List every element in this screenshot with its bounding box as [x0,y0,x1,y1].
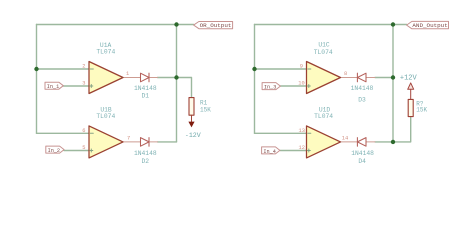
wire AND bus to R? bottom [393,117,411,142]
global label OR_Output [194,22,233,30]
diode D1 [141,73,150,82]
junction feedback to pin 9 [252,67,256,71]
wire D2 cathode to bus [158,141,177,143]
wire left vertical feedback right [254,25,256,134]
svg-text:D3: D3 [358,97,366,104]
diode D4 [357,138,366,147]
U1A minus mark [90,68,93,70]
svg-text:AND_Output: AND_Output [412,22,447,29]
junction OR output top [174,22,178,26]
wire D1 cathode to bus [158,77,177,79]
global label In_1 [45,82,63,90]
op-amp U1C pins (red stubs) [341,77,376,79]
resistor R? [408,99,413,116]
op-amp U1A [89,62,123,94]
op-amp U1D pins (red stubs) [341,141,376,143]
wire In_1 to pin 3 [63,85,89,87]
U1B minus mark [90,132,93,134]
svg-text:7: 7 [127,136,130,142]
svg-text:In_1: In_1 [47,84,59,90]
power -12V arrow [188,122,194,128]
op-amp U1D [307,126,341,158]
diode D2 [141,138,150,147]
svg-text:13: 13 [299,128,305,134]
svg-text:1: 1 [126,71,129,77]
svg-text:2: 2 [82,64,85,70]
R? top pin [410,89,412,99]
svg-text:OR_Output: OR_Output [200,22,232,29]
wire In_4 to pin 12 [280,150,306,152]
op-amp U1C [307,62,341,94]
diode D3 [357,73,366,82]
power +12V arrow [408,83,414,89]
op-amp U1B [89,126,123,158]
wire top feedback bus right [255,24,407,26]
svg-text:1N4148: 1N4148 [351,85,374,92]
wire D3 anode to AND bus [375,77,393,79]
wire left vertical feedback [36,25,38,134]
svg-text:5: 5 [82,145,85,151]
svg-text:15K: 15K [416,107,427,114]
U1B plus mark [90,149,93,152]
wire D4 anode to AND bus [375,141,393,143]
svg-text:+12V: +12V [400,74,418,82]
junction D4/R node [391,140,395,144]
U1A plus mark [90,85,93,88]
svg-text:R1: R1 [200,100,208,107]
wire to U1B pin 6 [37,132,90,134]
wire In_2 to pin 5 [64,150,89,152]
svg-text:In_2: In_2 [48,148,60,154]
svg-text:D4: D4 [358,158,366,165]
svg-text:14: 14 [342,136,348,142]
svg-text:D2: D2 [142,158,150,165]
wire to U1A pin 2 [37,68,90,70]
wire to U1C pin 9 [255,68,307,70]
svg-text:9: 9 [300,64,303,70]
svg-text:15K: 15K [200,107,211,114]
svg-text:-12V: -12V [185,132,201,139]
svg-text:1N4148: 1N4148 [134,85,157,92]
junction AND output top [391,22,395,26]
wire bus to R1 top [177,78,192,98]
global label AND_Output [407,21,449,29]
svg-text:TL074: TL074 [96,113,115,120]
wire to U1D pin 13 [255,132,307,134]
wire AND bus vertical [392,25,394,142]
svg-text:In_3: In_3 [264,85,276,91]
wire OR bus vertical [176,25,178,142]
svg-text:8: 8 [344,71,347,77]
op-amp U1B pins (red stubs) [123,141,158,143]
U1C minus mark [308,68,311,70]
junction node A (feedback to pin2) [34,67,38,71]
U1D plus mark [307,149,310,152]
svg-text:12: 12 [299,145,305,151]
svg-text:In_4: In_4 [263,149,275,155]
op-amp U1A pins (red stubs) [123,77,158,79]
global label In_4 [262,147,280,155]
U1C plus mark [307,85,310,88]
wire In_3 to pin 10 [280,85,306,87]
R1 bottom pin [191,115,193,122]
junction D3 node [391,75,395,79]
U1D minus mark [308,132,311,134]
svg-text:1N4148: 1N4148 [351,150,374,157]
svg-text:10: 10 [298,81,304,87]
junction D1/R1 node [174,75,178,79]
svg-text:U1C: U1C [318,42,330,49]
svg-text:1N4148: 1N4148 [134,150,157,157]
svg-text:D1: D1 [142,93,150,100]
wire top feedback bus left [37,24,194,26]
svg-text:3: 3 [82,81,85,87]
svg-text:TL074: TL074 [314,113,333,120]
svg-text:6: 6 [82,128,85,134]
svg-text:TL074: TL074 [314,49,333,56]
svg-text:TL074: TL074 [96,49,115,56]
global label In_3 [262,83,280,91]
resistor R1 [189,98,194,116]
global label In_2 [46,146,64,154]
